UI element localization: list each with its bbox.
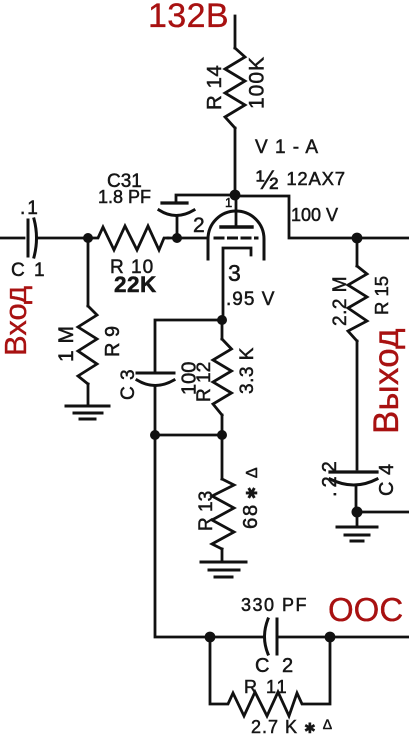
grid wire bbox=[168, 237, 208, 240]
capacitor C4 bbox=[330, 470, 377, 473]
capacitor C1 bbox=[27, 220, 30, 256]
svg-text:330 PF: 330 PF bbox=[241, 595, 308, 615]
svg-text:2.2 M: 2.2 M bbox=[330, 276, 351, 326]
node C3 bottom junction bbox=[150, 430, 160, 440]
svg-text:.95 V: .95 V bbox=[226, 289, 275, 310]
ground (R13) bbox=[201, 562, 246, 577]
ground (R9) bbox=[66, 406, 109, 419]
svg-text:R 15: R 15 bbox=[371, 276, 392, 315]
capacitor C3 bbox=[137, 372, 174, 375]
node feedback right junction bbox=[325, 632, 336, 643]
node output junction bbox=[352, 233, 363, 244]
plate lead bbox=[235, 198, 238, 226]
node plate junction bbox=[230, 190, 241, 201]
wire C4 node to right edge bbox=[357, 511, 409, 514]
svg-text:Вход: Вход bbox=[0, 286, 33, 356]
node cathode junction bbox=[217, 315, 227, 325]
wire R14 to plate node bbox=[234, 128, 237, 195]
svg-text:C 3: C 3 bbox=[118, 369, 139, 400]
node R12 bottom junction bbox=[217, 430, 227, 440]
svg-text:3.3 K: 3.3 K bbox=[237, 347, 258, 394]
node feedback left junction bbox=[205, 632, 216, 643]
svg-text:2: 2 bbox=[193, 214, 205, 237]
cathode bottom rail bbox=[155, 434, 222, 437]
input wire bbox=[0, 237, 24, 240]
node C4 bottom junction bbox=[352, 507, 363, 518]
resistor R12 bbox=[221, 320, 224, 339]
resistor R11 bbox=[210, 637, 330, 716]
svg-text:R 14: R 14 bbox=[203, 65, 226, 110]
node grid junction bbox=[172, 233, 182, 243]
resistor R10 bbox=[88, 226, 168, 250]
node input junction bbox=[83, 233, 93, 243]
wire input node to R9 bbox=[87, 238, 90, 306]
svg-text:R 13: R 13 bbox=[196, 491, 217, 531]
svg-text:1: 1 bbox=[225, 195, 232, 210]
cathode bbox=[223, 248, 251, 320]
wire R15 to C4 bbox=[356, 341, 359, 469]
capacitor C31 bbox=[162, 201, 187, 204]
resistor R9 bbox=[78, 306, 97, 384]
svg-text:C 2: C 2 bbox=[255, 655, 297, 677]
resistor R15 bbox=[356, 238, 359, 266]
wire supply to R14 bbox=[234, 16, 237, 48]
svg-text:V 1 - A: V 1 - A bbox=[255, 137, 319, 158]
ground (C4) bbox=[337, 527, 377, 541]
feedback left wire bbox=[155, 435, 262, 637]
svg-text:132В: 132В bbox=[148, 0, 229, 35]
wire C4 node to ground bbox=[356, 512, 359, 526]
svg-text:Выход: Выход bbox=[367, 328, 406, 434]
grid dashed line bbox=[215, 237, 257, 240]
wire plate node to output corner bbox=[235, 196, 409, 238]
svg-text:.22: .22 bbox=[319, 457, 341, 497]
svg-text:1 M: 1 M bbox=[55, 325, 78, 362]
svg-text:22K: 22K bbox=[114, 272, 157, 297]
svg-text:.1: .1 bbox=[20, 198, 40, 219]
svg-text:C 4: C 4 bbox=[376, 463, 398, 496]
svg-text:3: 3 bbox=[228, 260, 241, 286]
svg-text:ООС: ООС bbox=[328, 591, 403, 628]
resistor R13 bbox=[221, 435, 224, 479]
wire R9 to ground bbox=[87, 384, 90, 405]
triode V1-A envelope bbox=[208, 211, 264, 259]
svg-text:100K: 100K bbox=[246, 56, 269, 109]
cathode top rail bbox=[155, 320, 223, 371]
svg-text:2.7 K ✱ Δ: 2.7 K ✱ Δ bbox=[251, 716, 333, 736]
svg-text:C 1: C 1 bbox=[11, 260, 47, 281]
wire plate node to C31 top plate bbox=[176, 195, 235, 202]
svg-text:100 V: 100 V bbox=[291, 205, 338, 225]
plate bar bbox=[221, 225, 252, 228]
capacitor C2 bbox=[265, 619, 269, 654]
svg-text:R 11: R 11 bbox=[244, 677, 289, 697]
svg-text:R 12: R 12 bbox=[194, 362, 215, 402]
svg-text:R 9: R 9 bbox=[102, 326, 124, 357]
svg-text:1.8 PF: 1.8 PF bbox=[98, 187, 151, 207]
resistor R14 bbox=[225, 48, 245, 128]
